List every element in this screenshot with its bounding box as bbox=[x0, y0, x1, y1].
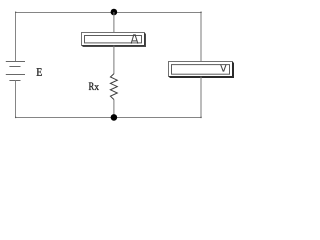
label E (battery) bbox=[37, 68, 42, 75]
voltmeter box inner bbox=[172, 65, 230, 75]
ammeter box outer bbox=[82, 33, 146, 47]
resistor Rx zigzag bbox=[110, 74, 117, 100]
label A (ammeter) bbox=[131, 34, 138, 43]
wire left lower (battery down to bottom wire) bbox=[15, 81, 17, 119]
node junction dot top bbox=[111, 9, 118, 16]
wire left upper (top wire down to battery) bbox=[15, 12, 17, 62]
wire top horizontal (battery to voltmeter branch) bbox=[15, 12, 202, 14]
voltmeter box outer bbox=[169, 62, 234, 78]
wire bottom horizontal bbox=[15, 117, 202, 119]
ammeter box inner bbox=[85, 36, 142, 43]
wire corner bottom-left bbox=[15, 117, 16, 118]
wire corner top-left bbox=[15, 12, 16, 13]
wire voltmeter down to bottom wire bbox=[200, 77, 202, 119]
label V (voltmeter) bbox=[221, 64, 227, 71]
wire resistor down to bottom dot bbox=[113, 100, 115, 119]
node junction dot bottom bbox=[111, 114, 118, 121]
wire right upper (top wire down to voltmeter) bbox=[200, 12, 202, 62]
wire corner top-right bbox=[200, 12, 201, 13]
wire top dot down to ammeter bbox=[113, 12, 115, 33]
battery E bbox=[6, 62, 25, 81]
wire corner bottom-right bbox=[200, 117, 201, 118]
label Rx (resistor) bbox=[89, 83, 99, 90]
wire ammeter down to resistor bbox=[113, 46, 115, 75]
